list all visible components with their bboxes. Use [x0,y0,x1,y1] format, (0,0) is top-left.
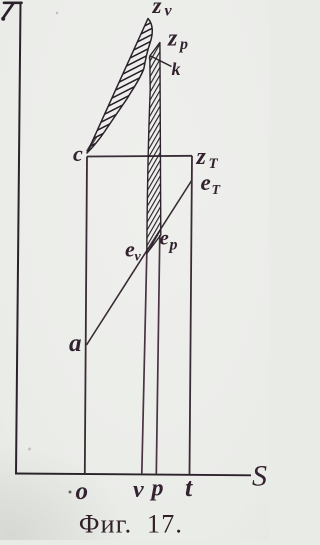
svg-text:c: c [73,141,83,166]
wire v-line [142,253,147,474]
svg-text:e: e [125,237,135,262]
svg-text:t: t [185,473,193,502]
diagonal line a to e_T [87,180,193,345]
T axis [16,3,21,474]
svg-text:p: p [168,237,178,254]
svg-text:v: v [135,250,142,265]
S axis [15,474,251,476]
wedge tail shading [87,137,96,152]
svg-text:T: T [212,183,222,198]
wire t-line (right rectangle edge) [190,156,193,474]
svg-text:z: z [152,0,162,18]
svg-text:S: S [252,460,267,493]
ink speck [69,491,72,494]
T axis label glyph [3,3,22,19]
svg-text:v: v [165,3,173,20]
svg-text:o: o [76,478,89,505]
hatched triangle c z_v (wedge) [87,19,152,154]
svg-text:e: e [201,170,211,195]
wire o-line (left rectangle edge) [85,157,87,475]
ink speck [56,12,58,14]
ink speck [28,448,31,451]
svg-text:k: k [172,59,181,79]
svg-text:Фиг. 17.: Фиг. 17. [79,510,183,539]
svg-text:a: a [69,330,82,357]
leader line from k label to point k [149,56,172,67]
svg-text:p: p [178,36,188,53]
svg-text:e: e [160,226,169,250]
svg-text:z: z [167,26,178,52]
svg-text:v: v [133,477,144,503]
hatched strip z_p (between v and p extensions) [147,43,161,254]
wire p-line [156,235,160,474]
wire top edge c to z_T [87,155,192,158]
svg-text:p: p [150,476,164,502]
svg-text:z: z [196,144,207,170]
